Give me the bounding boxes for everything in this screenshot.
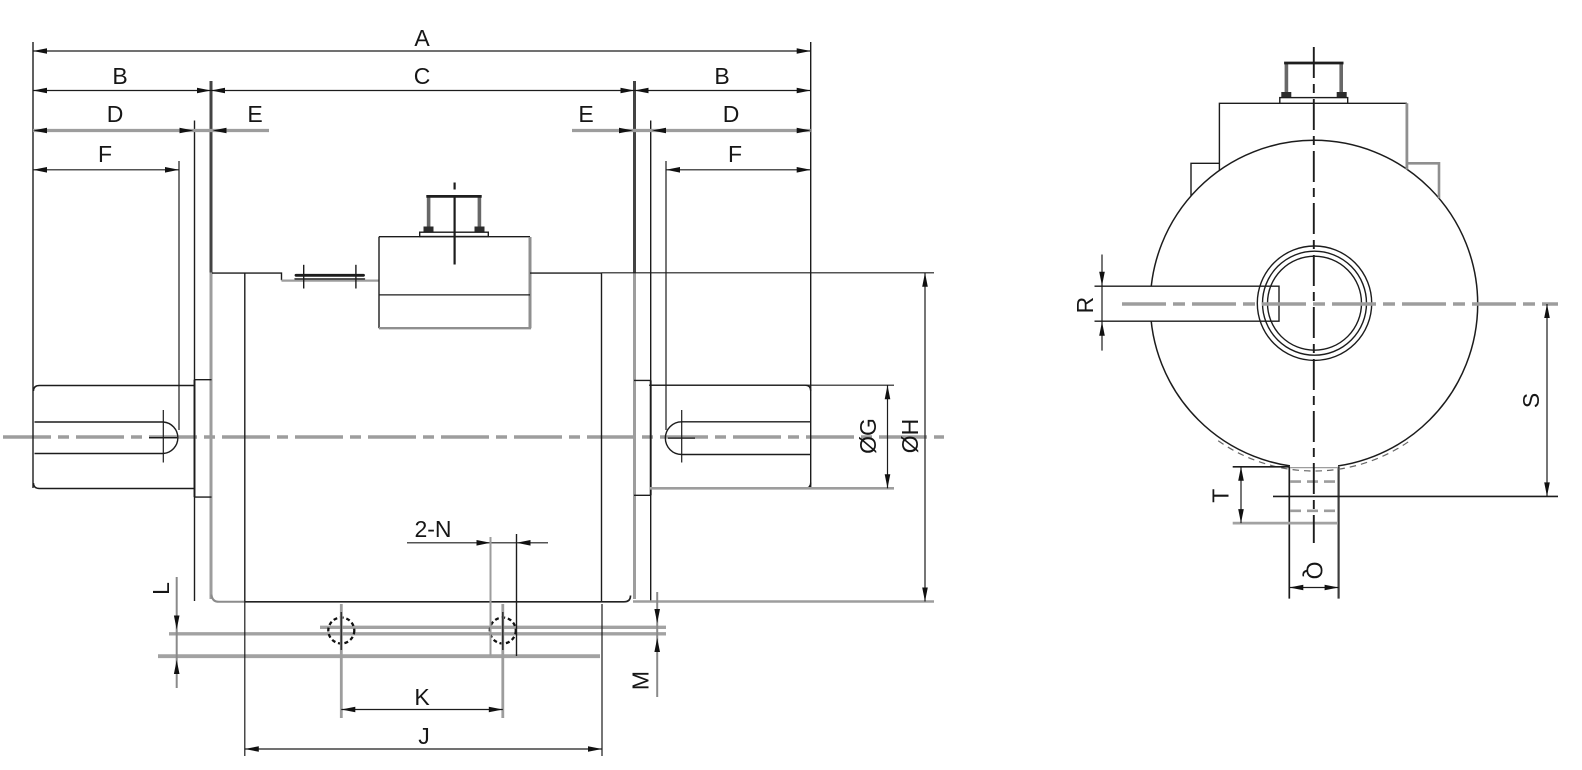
OG top extension line [649, 384, 894, 386]
Q arrows [1289, 585, 1303, 591]
OG arrows [885, 385, 891, 399]
center hole inner ring [1268, 256, 1362, 350]
svg-text:2-N: 2-N [414, 516, 451, 542]
svg-text:F: F [98, 141, 112, 167]
name plate bottom line [295, 278, 365, 280]
svg-text:K: K [414, 684, 430, 710]
top block step 1 [1219, 103, 1407, 170]
dimension F line left [33, 169, 179, 171]
svg-text:F: F [728, 141, 742, 167]
J right extension line [601, 604, 603, 756]
left hub step top [195, 379, 212, 381]
right hub step top [634, 379, 651, 381]
name plate screw tick 2 [355, 265, 357, 289]
dimension B/C arrows [33, 88, 47, 94]
OG dimension line [887, 385, 889, 488]
right hub step bottom [634, 494, 651, 496]
mounting plate bottom edge (grey) [158, 654, 600, 658]
body top right of box [530, 272, 602, 274]
left flange inner face upper (C/E extension, dark) [210, 81, 213, 273]
2-N arrows [477, 540, 491, 546]
M arrows [654, 609, 660, 623]
OH bottom extension line (grey) [633, 600, 934, 603]
bolt hole 1 centerline [340, 604, 343, 718]
J left extension line [244, 602, 246, 756]
svg-text:E: E [247, 101, 262, 127]
top block step 2 left stub [1191, 163, 1219, 196]
recessed surface (grey) to connector box [282, 280, 380, 282]
dimension F arrows right [666, 167, 680, 173]
bolt vertical centerline [454, 183, 456, 190]
T top tail [1233, 466, 1290, 468]
M dimension line (grey) [656, 592, 658, 697]
bolt base washer [420, 232, 489, 236]
body bottom with end fillets [245, 596, 631, 602]
tab top hidden edge [1290, 467, 1338, 469]
left keyway slot [35, 422, 178, 454]
body left edge [244, 273, 246, 602]
S arrows [1544, 304, 1550, 318]
dimension F line right [666, 169, 811, 171]
main circle body [1150, 140, 1477, 467]
bolt hole 2 (dashed circle) [490, 618, 516, 644]
svg-text:J: J [418, 723, 430, 749]
OH arrows [922, 273, 928, 287]
bolt cap foot right (front) [1337, 92, 1347, 98]
dimension D arrows left [33, 128, 47, 134]
Q dimension line [1289, 587, 1338, 589]
connector box left edge [378, 237, 380, 329]
left keyway center ticks [162, 410, 164, 463]
svg-text:M: M [628, 671, 654, 690]
dimension E arrow left [213, 128, 227, 134]
T arrows [1238, 467, 1244, 481]
svg-text:A: A [414, 25, 430, 51]
L arrows [174, 616, 180, 630]
keyway bar (front view) [1095, 286, 1280, 321]
left hub front edge (thicker segment) [194, 380, 196, 497]
svg-text:ØG: ØG [855, 418, 881, 454]
dimension A arrows [33, 48, 47, 54]
J arrows [245, 746, 259, 752]
bolt cap (front view) [1285, 63, 1289, 96]
bolt cap top edge (front) [1284, 62, 1343, 65]
bolt cap foot left [424, 227, 434, 233]
svg-text:T: T [1208, 489, 1234, 503]
R dimension line [1101, 255, 1103, 351]
right keyway slot [665, 422, 810, 455]
name plate top bar [296, 274, 364, 277]
dimension B/C line [33, 90, 811, 92]
bottom tab right edge [1337, 467, 1339, 599]
connector box bottom (grey) [379, 327, 531, 329]
bolt cap (side view) [427, 197, 431, 231]
mounting plate rail top edge (grey) [320, 626, 666, 629]
bottom tab (front view) [1290, 463, 1338, 599]
right flange outer face / D extension line [650, 121, 652, 602]
bolt cap foot left (front) [1281, 92, 1291, 98]
OH top extension line [602, 272, 935, 274]
left hub step bottom [195, 496, 212, 498]
dimension E arrow right [619, 128, 633, 134]
body top-left edge with step [212, 273, 282, 280]
T dimension line [1240, 467, 1242, 523]
2-N leader line [407, 542, 548, 544]
K dimension line [341, 709, 503, 711]
center hole middle ring [1263, 251, 1367, 355]
dimension F arrows left [33, 167, 47, 173]
connector box top [379, 236, 530, 238]
horizontal centerline (front view, grey) [1122, 302, 1558, 305]
bottom tab left edge [1288, 467, 1290, 599]
right shaft outline [651, 385, 811, 488]
svg-text:Q: Q [1302, 561, 1328, 579]
bolt hole 1 (dashed circle) [328, 618, 354, 644]
T bottom tail (grey) [1233, 522, 1338, 525]
svg-text:B: B [714, 63, 729, 89]
bolt base washer (front) [1280, 98, 1348, 104]
left flange inner face lower (grey) [210, 273, 213, 600]
top block step 2 right stub [1407, 163, 1439, 198]
left flange outer face / D extension line [194, 121, 196, 602]
right shaft end / extension line [810, 42, 812, 488]
dimension A line [33, 50, 811, 52]
hidden circle arc (dashed) at bottom [1218, 441, 1410, 471]
L dimension line (grey) [176, 577, 178, 688]
center hole outer ring [1257, 246, 1371, 360]
left F extension line [178, 161, 180, 430]
right keyway center ticks [681, 410, 683, 463]
right hub front edge (thicker segment) [650, 380, 652, 495]
svg-text:L: L [148, 582, 174, 595]
left shaft end / A-B-D-F extension line [32, 42, 34, 488]
left shaft outline [34, 386, 195, 489]
svg-text:D: D [723, 101, 740, 127]
svg-text:R: R [1072, 297, 1098, 314]
S bottom extension line [1273, 495, 1558, 497]
OG bottom extension line (grey) [650, 487, 894, 490]
name plate screw tick 1 [303, 265, 305, 289]
2-N extension line right [516, 534, 518, 656]
body right edge [601, 273, 603, 602]
J dimension line [245, 748, 602, 750]
dimension D/E line left (grey) [33, 129, 269, 132]
bolt hole 1 dark tick [340, 612, 342, 650]
right flange inner face upper (C/E extension, dark) [633, 81, 636, 273]
dimension D arrows right [652, 128, 666, 134]
R arrows [1099, 272, 1105, 286]
S dimension line [1546, 304, 1548, 496]
bolt centerline lower segment [454, 196, 456, 265]
svg-text:D: D [107, 101, 124, 127]
vertical centerline (front view) [1313, 47, 1315, 543]
bolt cap top edge [426, 195, 481, 198]
svg-text:B: B [112, 63, 127, 89]
main horizontal centerline [3, 435, 944, 438]
mounting plate top edge (grey) [169, 632, 666, 635]
bolt cap foot right [475, 227, 485, 233]
left flange bottom fillet to body bottom [212, 595, 245, 602]
OH dimension line [924, 273, 926, 602]
2-N extension line left (grey) [490, 537, 492, 656]
bolt hole 2 dark tick [502, 612, 504, 650]
hidden keyway rows in tab (dashed grey) [1290, 480, 1339, 483]
svg-text:C: C [414, 63, 431, 89]
right F extension line [665, 161, 667, 430]
connector box right edge (grey) [529, 237, 532, 328]
connector box mid split line [379, 294, 530, 296]
dimension D/E line right (grey) [572, 129, 811, 132]
K arrows [341, 707, 355, 713]
svg-text:S: S [1518, 393, 1544, 408]
bolt hole 2 centerline [501, 604, 504, 718]
svg-text:ØH: ØH [897, 419, 923, 454]
svg-text:E: E [578, 101, 593, 127]
right flange inner face lower (grey) [633, 273, 636, 600]
